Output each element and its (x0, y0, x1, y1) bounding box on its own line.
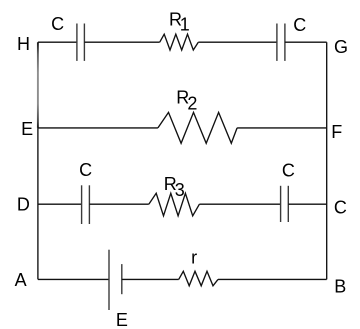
svg-text:B: B (334, 277, 346, 297)
svg-text:E: E (116, 310, 128, 329)
wire row3 cap to C (288, 203, 326, 205)
wire row2 R2 to F (237, 127, 327, 129)
resistor r (179, 271, 218, 286)
resistor R2 (158, 112, 237, 143)
wire row4 A to battery (38, 278, 109, 280)
svg-text:r: r (191, 248, 197, 268)
svg-text:1: 1 (180, 15, 190, 35)
wire right vertical (G-F-C-B) (326, 42, 328, 279)
capacitor C (top-left) (77, 24, 85, 61)
resistor R3 (149, 193, 200, 216)
wire row1 cap to G (285, 41, 327, 43)
capacitor C (row3 left) (82, 185, 90, 224)
wire row3 cap to R3 (89, 203, 148, 205)
svg-text:C: C (334, 198, 347, 218)
battery E short plate (121, 264, 123, 294)
resistor R1 (160, 34, 199, 50)
svg-text:C: C (282, 160, 295, 180)
svg-text:C: C (79, 160, 92, 180)
wire row2 E to R2 (38, 127, 158, 129)
svg-text:G: G (334, 37, 348, 57)
capacitor C (top-right) (277, 24, 285, 61)
capacitor C (row3 right) (281, 186, 289, 222)
wire row3 R3 to cap (199, 203, 280, 205)
svg-text:H: H (17, 34, 30, 54)
svg-text:3: 3 (175, 180, 185, 200)
svg-text:A: A (15, 270, 27, 290)
svg-text:C: C (293, 15, 306, 35)
wire row1 R1 to cap (198, 41, 277, 43)
svg-text:E: E (21, 119, 33, 139)
battery E long plate (108, 250, 110, 310)
wire left vertical upper (H-E, faded) (37, 42, 39, 128)
wire row1 cap to R1 (84, 41, 159, 43)
svg-text:C: C (51, 14, 64, 34)
wire left vertical (E-D-A) (37, 128, 39, 280)
wire row4 r to B (218, 278, 327, 280)
wire row1 H to C (38, 41, 77, 43)
svg-text:F: F (331, 122, 342, 142)
svg-text:D: D (17, 195, 30, 215)
svg-text:2: 2 (187, 93, 197, 113)
wire row3 D to cap (38, 203, 82, 205)
wire row4 battery to r (122, 278, 179, 280)
